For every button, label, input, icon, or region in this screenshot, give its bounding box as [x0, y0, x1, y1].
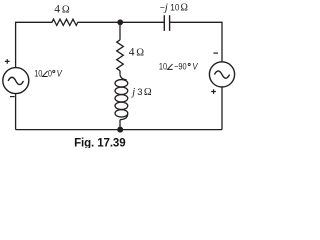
- minus sign of source V2: [213, 52, 218, 54]
- svg-text:0: 0: [48, 69, 52, 79]
- svg-text:10: 10: [159, 62, 168, 72]
- svg-text:Ω: Ω: [62, 5, 70, 16]
- wire bottom-left corner up to left source V1: [15, 94, 17, 130]
- svg-text:Ω: Ω: [144, 87, 152, 98]
- wire top-left: left source top to resistor R1: [16, 22, 49, 68]
- label 10∠0° V (source V1): [34, 68, 63, 79]
- svg-text:4: 4: [54, 4, 60, 16]
- wire resistor R1 to node A: [79, 21, 120, 23]
- capacitor C1 −j10Ω plates: [164, 15, 169, 31]
- svg-text:10: 10: [34, 69, 43, 79]
- wire node A down into middle branch: [119, 22, 121, 40]
- ac source V2 circle (10∠−90° V): [209, 62, 234, 87]
- angle symbol of 10∠−90° V: [167, 64, 172, 70]
- svg-text:3: 3: [137, 87, 142, 98]
- svg-text:j: j: [130, 87, 135, 98]
- svg-text:Fig. 17.39: Fig. 17.39: [74, 138, 125, 148]
- svg-text:Ω: Ω: [136, 47, 144, 58]
- ac source V1 circle (10∠0° V): [3, 68, 29, 94]
- inductor L1 j3Ω (coil): [115, 74, 128, 119]
- sine wave inside source V2: [214, 71, 229, 78]
- wire source V2 bottom to bottom-right corner: [221, 87, 223, 130]
- angle symbol of 10∠0° V: [42, 71, 47, 77]
- minus sign of source V1: [10, 96, 15, 98]
- svg-text:V: V: [192, 61, 198, 72]
- resistor R2 4Ω (middle, vertical zigzag): [117, 40, 124, 71]
- degree symbol of 10∠−90° V: [188, 63, 190, 65]
- svg-text:−90: −90: [174, 62, 187, 72]
- svg-text:10: 10: [170, 2, 179, 13]
- label 4 Ω (resistor R2): [129, 46, 144, 58]
- label 4 Ω (resistor R1): [54, 4, 70, 16]
- wire capacitor C1 to top-right corner down to source V2: [170, 22, 222, 62]
- resistor R1 4Ω (top, horizontal zigzag): [49, 19, 79, 25]
- wire resistor R2 to inductor L1: [119, 71, 121, 75]
- plus sign of source V1: [5, 59, 10, 64]
- label −j 10 Ω (capacitor C1): [160, 2, 188, 14]
- svg-text:Ω: Ω: [181, 3, 188, 14]
- label j 3 Ω (inductor L1): [130, 87, 152, 98]
- bottom wire: [16, 129, 222, 131]
- svg-text:V: V: [57, 68, 63, 79]
- wire inductor L1 to node B: [119, 120, 121, 130]
- wire node A to capacitor C1: [120, 21, 164, 23]
- degree symbol of 10∠0° V: [53, 70, 55, 72]
- sine wave inside source V1: [8, 77, 23, 84]
- node A junction dot (top middle): [117, 19, 123, 25]
- plus sign of source V2: [211, 89, 216, 94]
- label 10∠−90° V (source V2): [159, 61, 199, 72]
- svg-text:4: 4: [129, 46, 135, 58]
- node B junction dot (bottom middle): [117, 127, 123, 133]
